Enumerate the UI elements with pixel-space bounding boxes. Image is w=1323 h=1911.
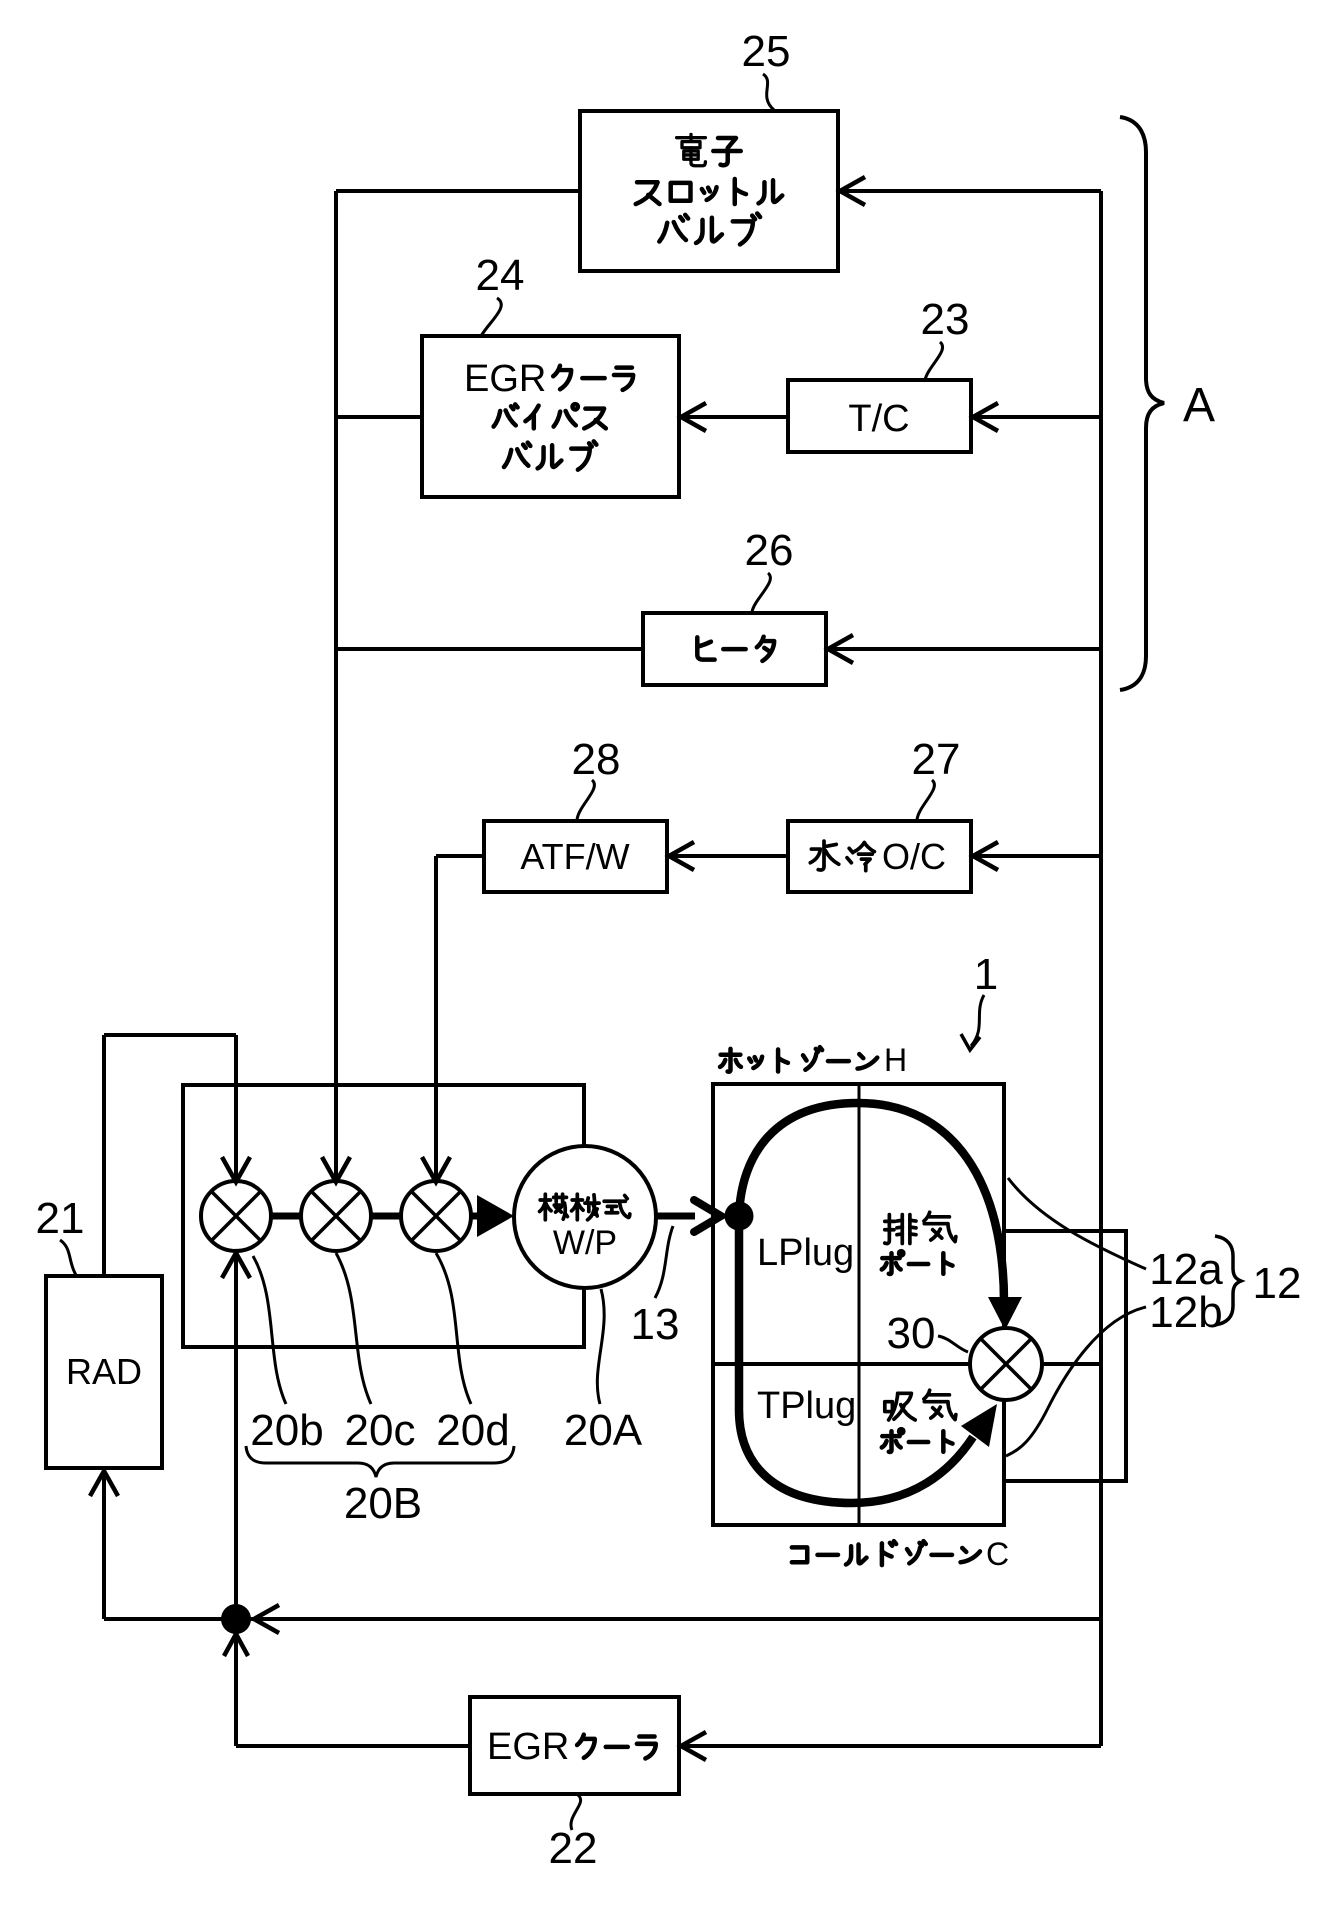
svg-text:EGR: EGR [464,358,546,400]
svg-text:12b: 12b [1149,1288,1222,1337]
svg-text:12: 12 [1253,1259,1302,1308]
svg-text:27: 27 [912,735,961,784]
svg-text:1: 1 [974,950,998,999]
svg-text:13: 13 [631,1300,680,1349]
svg-text:H: H [884,1042,907,1078]
svg-text:24: 24 [476,251,525,300]
svg-text:20B: 20B [344,1479,422,1528]
svg-text:21: 21 [36,1194,85,1243]
svg-text:30: 30 [887,1309,936,1358]
svg-text:O/C: O/C [882,836,946,877]
svg-text:23: 23 [921,295,970,344]
svg-text:12a: 12a [1149,1245,1223,1294]
svg-text:ATF/W: ATF/W [520,836,629,877]
svg-text:20d: 20d [436,1406,509,1455]
svg-text:28: 28 [572,735,621,784]
svg-text:RAD: RAD [66,1351,142,1392]
svg-text:20b: 20b [250,1406,323,1455]
svg-text:26: 26 [745,526,794,575]
svg-text:EGR: EGR [487,1726,569,1768]
svg-text:W/P: W/P [553,1224,617,1262]
svg-text:20A: 20A [564,1406,643,1455]
svg-text:20c: 20c [345,1406,416,1455]
svg-text:22: 22 [549,1824,598,1873]
svg-text:TPlug: TPlug [757,1385,856,1427]
svg-text:25: 25 [742,27,791,76]
svg-text:C: C [986,1536,1009,1572]
svg-text:T/C: T/C [848,398,909,440]
svg-text:LPlug: LPlug [757,1232,854,1274]
svg-text:A: A [1183,379,1215,432]
